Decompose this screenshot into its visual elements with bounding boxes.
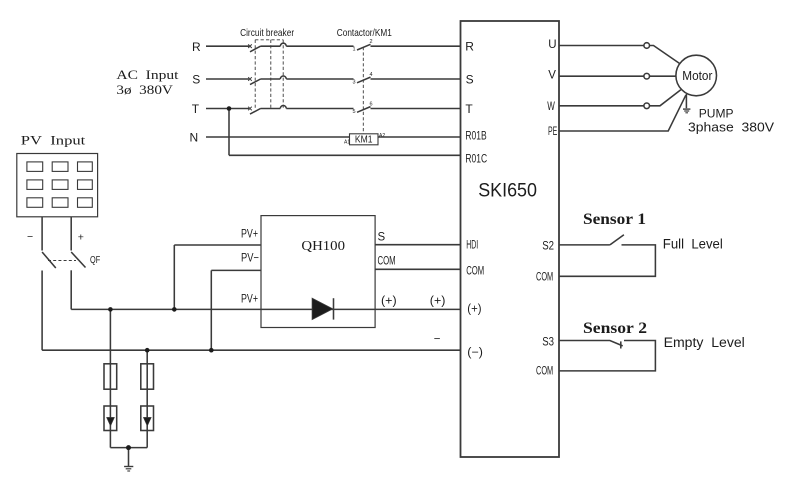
svg-text:R01B: R01B xyxy=(465,130,487,142)
svg-text:−: − xyxy=(27,231,33,243)
svg-text:COM: COM xyxy=(378,256,396,268)
svg-text:PE: PE xyxy=(548,126,557,138)
svg-text:3ø 380V: 3ø 380V xyxy=(116,82,173,97)
svg-text:PV+: PV+ xyxy=(241,228,258,240)
svg-text:S3: S3 xyxy=(542,336,554,348)
svg-text:(+): (+) xyxy=(430,296,446,308)
svg-text:5: 5 xyxy=(353,109,356,115)
svg-text:(+): (+) xyxy=(467,304,481,316)
svg-text:T: T xyxy=(192,102,200,116)
svg-text:Full Level: Full Level xyxy=(663,237,723,252)
svg-text:V: V xyxy=(548,69,556,81)
svg-text:1: 1 xyxy=(353,47,356,53)
svg-text:PV+: PV+ xyxy=(241,294,258,306)
svg-text:6: 6 xyxy=(370,101,373,107)
svg-text:S2: S2 xyxy=(542,241,554,253)
svg-text:Motor: Motor xyxy=(682,68,713,83)
svg-text:−: − xyxy=(434,333,441,345)
svg-text:KM1: KM1 xyxy=(355,135,373,146)
svg-text:3: 3 xyxy=(353,79,356,85)
svg-text:T: T xyxy=(465,102,473,116)
svg-text:Sensor 2: Sensor 2 xyxy=(583,320,647,337)
svg-text:COM: COM xyxy=(536,271,553,283)
svg-text:R01C: R01C xyxy=(465,153,487,165)
svg-text:SKI650: SKI650 xyxy=(478,180,537,202)
svg-text:U: U xyxy=(548,39,556,51)
svg-text:+: + xyxy=(78,231,84,243)
svg-text:HDI: HDI xyxy=(466,240,478,252)
svg-text:AC Input: AC Input xyxy=(116,67,178,82)
svg-text:S: S xyxy=(466,72,474,86)
svg-text:A2: A2 xyxy=(379,133,385,139)
svg-text:R: R xyxy=(465,40,474,54)
svg-text:COM: COM xyxy=(536,366,553,378)
svg-text:3phase 380V: 3phase 380V xyxy=(688,121,775,135)
svg-text:(−): (−) xyxy=(467,347,483,359)
svg-text:W: W xyxy=(547,101,555,113)
svg-text:4: 4 xyxy=(370,72,373,78)
svg-text:COM: COM xyxy=(466,266,484,278)
svg-text:N: N xyxy=(190,131,199,145)
svg-text:Empty Level: Empty Level xyxy=(664,335,745,350)
svg-text:Sensor 1: Sensor 1 xyxy=(583,211,646,228)
svg-text:Contactor/KM1: Contactor/KM1 xyxy=(337,27,392,39)
svg-text:PV−: PV− xyxy=(241,253,259,265)
svg-text:Circuit breaker: Circuit breaker xyxy=(240,27,294,39)
svg-text:QH100: QH100 xyxy=(301,239,345,254)
svg-text:A1: A1 xyxy=(344,140,350,146)
svg-text:PUMP: PUMP xyxy=(699,106,734,120)
svg-text:S: S xyxy=(192,73,200,87)
svg-text:PV Input: PV Input xyxy=(21,132,86,147)
svg-text:S: S xyxy=(378,232,386,244)
svg-text:2: 2 xyxy=(370,39,373,45)
svg-text:QF: QF xyxy=(90,254,100,266)
svg-text:R: R xyxy=(192,40,201,54)
svg-text:(+): (+) xyxy=(381,296,397,308)
